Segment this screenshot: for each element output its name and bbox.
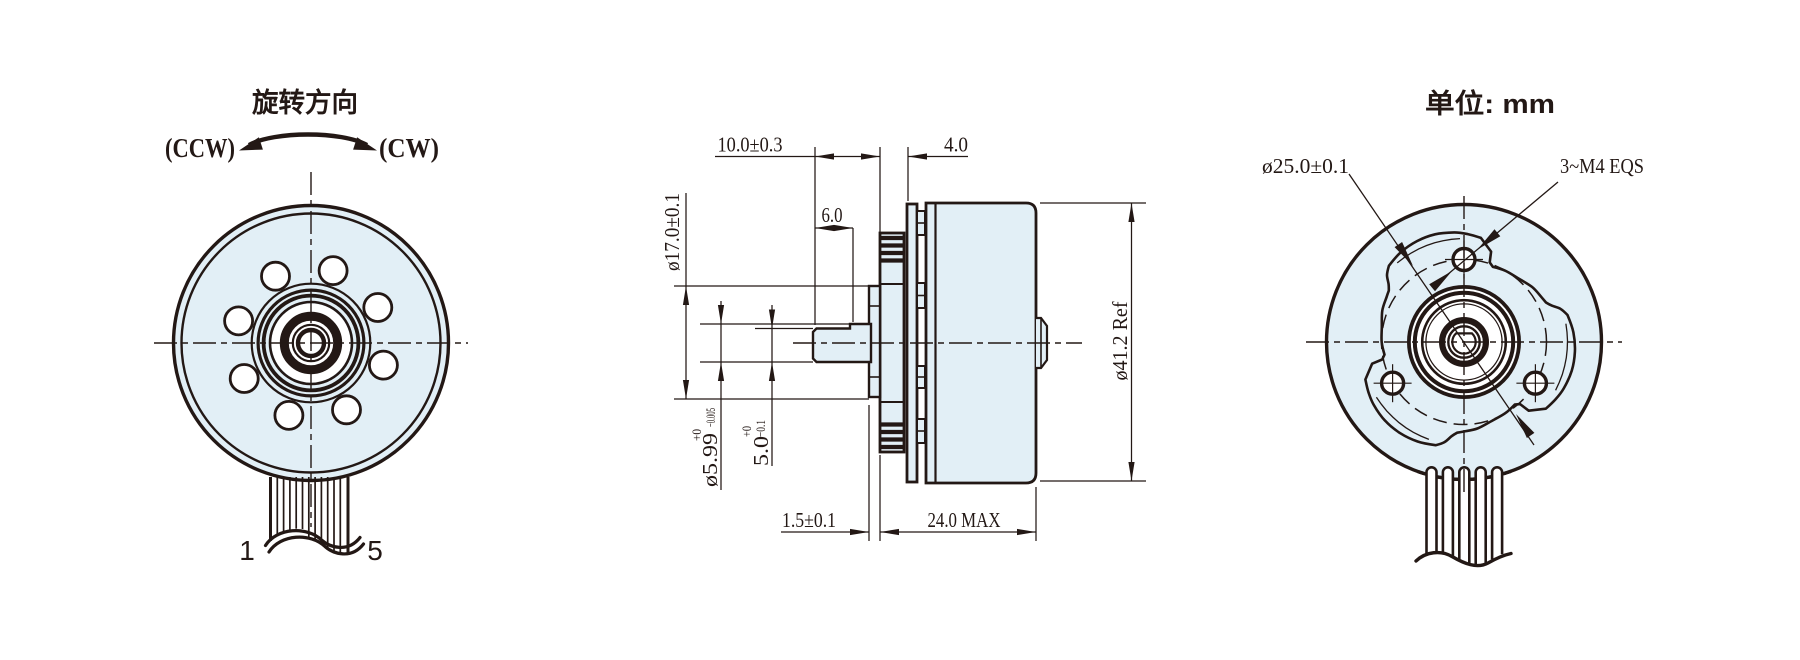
svg-text:5.0: 5.0 xyxy=(749,436,773,466)
svg-text:1.5±0.1: 1.5±0.1 xyxy=(782,508,836,532)
svg-text:5: 5 xyxy=(367,535,383,566)
svg-text:1: 1 xyxy=(239,535,255,566)
svg-text:ø25.0±0.1: ø25.0±0.1 xyxy=(1262,154,1349,178)
svg-text:(CCW): (CCW) xyxy=(165,133,235,163)
svg-text:+0: +0 xyxy=(689,429,704,441)
svg-text:+0: +0 xyxy=(739,426,754,437)
svg-text:4.0: 4.0 xyxy=(944,133,968,157)
svg-text:3~M4 EQS: 3~M4 EQS xyxy=(1560,154,1644,178)
svg-text:−0.1: −0.1 xyxy=(753,420,768,437)
svg-text:ø41.2 Ref: ø41.2 Ref xyxy=(1108,302,1132,381)
svg-text:24.0 MAX: 24.0 MAX xyxy=(928,508,1001,532)
svg-text:旋转方向: 旋转方向 xyxy=(252,87,358,118)
svg-text:6.0: 6.0 xyxy=(822,203,843,227)
svg-text:单位: mm: 单位: mm xyxy=(1425,88,1555,119)
svg-text:(CW): (CW) xyxy=(379,133,439,163)
svg-text:10.0±0.3: 10.0±0.3 xyxy=(718,133,783,157)
svg-text:−0.005: −0.005 xyxy=(703,408,718,427)
svg-text:ø17.0±0.1: ø17.0±0.1 xyxy=(660,193,684,271)
